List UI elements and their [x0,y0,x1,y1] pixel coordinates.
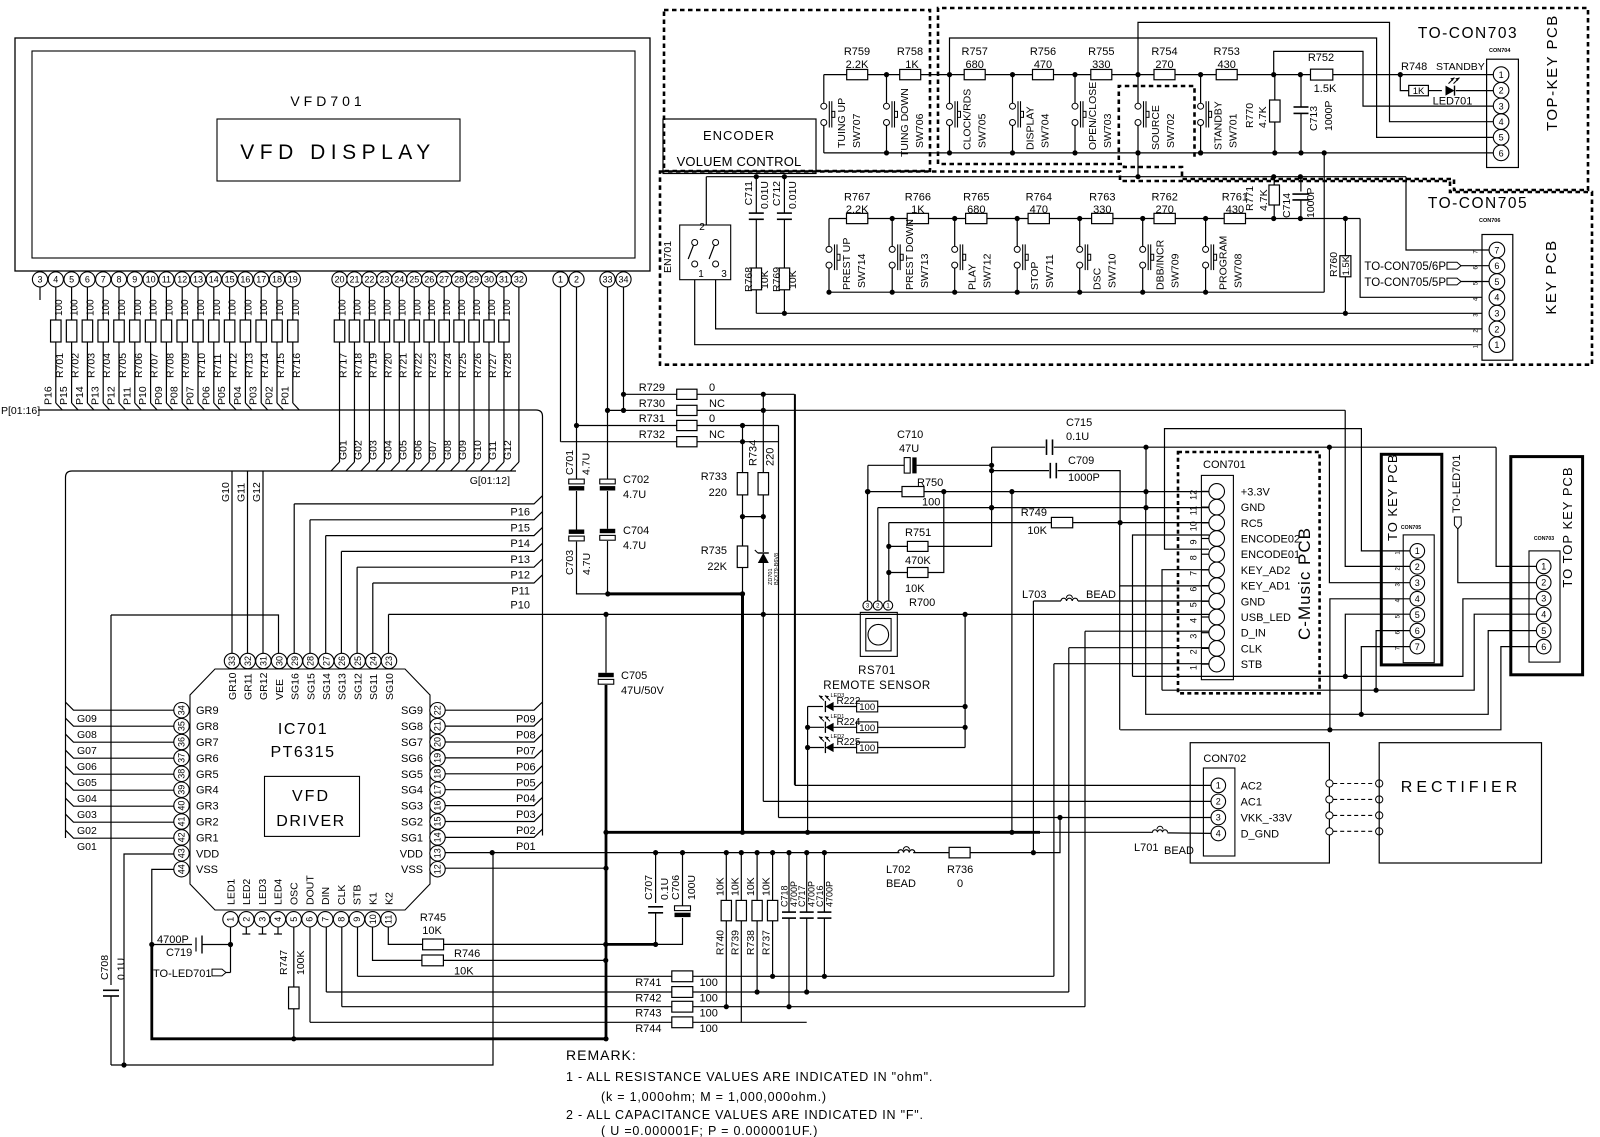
svg-text:4: 4 [53,275,58,285]
svg-text:12: 12 [1189,490,1199,500]
svg-text:CON703: CON703 [1534,536,1554,542]
svg-text:R715: R715 [275,353,287,378]
wire C702-C704 [607,491,609,529]
IC pin 1 LED1 [223,912,238,927]
svg-text:R738: R738 [745,930,757,955]
svg-text:SW712: SW712 [982,253,994,288]
svg-text:34: 34 [177,705,187,715]
wire P08 [445,718,542,726]
IC pin 8 CLK [333,912,348,927]
svg-text:24: 24 [369,656,379,666]
svg-text:11: 11 [162,275,171,285]
svg-text:1: 1 [558,275,563,285]
CON701 connector body [1201,475,1233,679]
CON701 pin 9 ENCODE02 [1209,531,1225,547]
svg-text:LED701: LED701 [1433,96,1473,108]
svg-text:KEY_AD1: KEY_AD1 [1241,581,1291,593]
svg-text:R758: R758 [897,46,923,58]
IC pin 13 VDD [430,846,445,861]
VFD pin 3 stub [39,287,41,300]
svg-text:GND: GND [1241,502,1266,514]
svg-text:4: 4 [273,917,283,922]
svg-text:4.7U: 4.7U [581,553,593,575]
CON706 pin 3 [1489,305,1505,321]
IC pin 2 LED2 [239,912,254,927]
LED LED3 [825,702,833,711]
svg-text:100: 100 [700,993,718,1005]
svg-text:5: 5 [69,275,74,285]
svg-text:29: 29 [469,275,479,285]
svg-text:R702: R702 [70,353,82,378]
IC pin 10 K1 [365,912,380,927]
svg-text:100: 100 [228,299,239,316]
CON704 pin 3 [1493,98,1509,114]
svg-text:100: 100 [859,723,875,734]
svg-text:1: 1 [698,269,704,280]
wire AC2 line [795,394,1211,785]
wire R746 right [443,959,605,961]
IC pin 43 VDD [174,846,189,861]
VFD pin 14 [213,271,215,272]
IC pin 40 GR3 [174,798,189,813]
svg-text:2: 2 [1216,797,1221,807]
svg-text:16: 16 [433,801,443,811]
wire G11 to IC [247,471,249,653]
IC pin 30 VEE [271,653,286,668]
svg-text:44: 44 [177,864,187,874]
svg-text:NC: NC [709,398,725,410]
IC pin 34 GR9 [174,703,189,718]
svg-text:ENCODE01: ENCODE01 [1241,549,1300,561]
svg-text:100: 100 [54,299,65,316]
CON702 to rectifier links [1326,780,1333,787]
svg-text:LED2: LED2 [241,879,253,905]
wire pin2 CLK corner [1069,647,1209,649]
svg-text:STANDBY: STANDBY [1436,61,1485,73]
svg-text:R710: R710 [196,353,208,378]
switch SW714 PREST UP [828,219,830,247]
svg-text:100: 100 [212,299,223,316]
svg-text:9: 9 [1189,539,1199,544]
VFD pin 16 [244,271,246,272]
switch SW701 STANDBY [1198,72,1203,77]
svg-text:GR12: GR12 [258,672,270,700]
svg-text:P14: P14 [74,386,86,405]
wire pin8 ENCODE01 [1165,429,1410,551]
svg-text:17: 17 [256,275,266,285]
svg-text:C711: C711 [743,181,755,205]
svg-text:24: 24 [394,275,404,285]
resistor R742 100 [325,927,327,992]
svg-text:P11: P11 [511,586,530,598]
resistor R737 10K [770,850,775,855]
svg-text:10K: 10K [761,877,773,896]
svg-text:4: 4 [1494,293,1499,303]
wire EN701 pin1 to con706 pin1 [695,280,1482,345]
IC pin 39 GR4 [174,782,189,797]
IC pin 16 SG3 [430,798,445,813]
svg-text:P10: P10 [510,600,530,612]
CON701 pin 6 KEY_AD1 [1209,578,1225,594]
svg-text:100: 100 [367,299,378,316]
svg-text:P16: P16 [42,386,54,405]
svg-text:R747: R747 [278,950,290,975]
IC pin 21 SG8 [430,718,445,733]
svg-text:C714: C714 [1281,193,1293,218]
VFD pin 19 [292,271,294,272]
capacitor C709 1000P [992,470,1049,472]
svg-text:C708: C708 [99,955,111,980]
svg-text:TO KEY PCB: TO KEY PCB [1385,453,1400,541]
VFD pin 29 [473,271,475,272]
svg-text:3: 3 [1494,309,1499,319]
svg-text:LED1: LED1 [225,879,237,905]
svg-text:22K: 22K [707,561,727,573]
CON703 pin 1 [1536,559,1551,574]
svg-text:C715: C715 [1066,417,1092,429]
svg-text:TO TOP KEY PCB: TO TOP KEY PCB [1560,466,1575,587]
wire R733 vertical [742,426,744,473]
svg-text:R726: R726 [472,353,484,378]
svg-text:R723: R723 [427,353,439,378]
svg-text:VFD DISPLAY: VFD DISPLAY [240,141,435,164]
svg-text:SW709: SW709 [1170,253,1182,288]
VFD pin 15 [229,271,231,272]
svg-text:0.1U: 0.1U [116,958,128,980]
capacitor C707 0.1U [655,853,657,903]
svg-text:R733: R733 [701,471,727,483]
wire CON705 pin7 [1361,647,1409,715]
svg-text:3: 3 [1499,101,1504,111]
svg-text:R706: R706 [133,353,145,378]
svg-text:GND: GND [1241,596,1266,608]
svg-text:+3.3V: +3.3V [1241,486,1271,498]
svg-text:R704: R704 [101,353,113,378]
svg-text:R743: R743 [635,1007,661,1019]
CON704 pin 6 [1493,145,1509,161]
svg-text:R746: R746 [454,948,480,960]
svg-text:STANDBY: STANDBY [1213,101,1225,150]
wire pin1 to R732 [560,287,562,442]
svg-text:DBB/INCR: DBB/INCR [1155,239,1167,290]
svg-text:100: 100 [133,299,144,316]
svg-text:SG16: SG16 [290,673,302,700]
svg-text:BZX79-B6V8: BZX79-B6V8 [774,553,780,585]
svg-text:100: 100 [164,299,175,316]
IC pin 7 DIN [318,912,333,927]
svg-text:10K: 10K [714,877,726,896]
svg-text:P09: P09 [153,386,165,405]
svg-text:R730: R730 [639,398,665,410]
bold VSS net down [152,945,606,1039]
svg-text:1.5K: 1.5K [1341,255,1352,275]
svg-text:10K: 10K [422,925,442,937]
svg-text:100: 100 [180,299,191,316]
svg-text:10K: 10K [787,270,799,289]
svg-text:P06: P06 [200,386,212,405]
svg-text:470: 470 [1030,204,1048,216]
resistor R717 100 [339,287,341,320]
svg-text:1: 1 [226,917,236,922]
svg-text:R732: R732 [639,429,665,441]
LED LED1 [825,723,833,732]
svg-text:1: 1 [1541,562,1546,572]
wire G12 to IC [262,471,264,653]
switch SW707 TUING UP [823,75,825,103]
svg-text:RC5: RC5 [1241,518,1263,530]
svg-text:6: 6 [85,275,90,285]
svg-text:K2: K2 [383,892,395,905]
svg-text:R740: R740 [714,930,726,955]
svg-text:100: 100 [700,1023,718,1035]
CON701 pin 11 GND [1209,499,1225,515]
svg-text:17: 17 [433,785,443,795]
svg-text:1000P: 1000P [1323,101,1335,131]
capacitor C702 4.7U [600,479,616,484]
svg-text:KEY PCB: KEY PCB [1543,239,1560,314]
CON703 pin 6 [1536,639,1551,654]
svg-text:SOURCE: SOURCE [1150,105,1162,150]
svg-text:GR8: GR8 [196,721,219,733]
wire C710 left down [867,465,869,491]
svg-text:31: 31 [499,275,509,285]
svg-text:SG5: SG5 [401,769,423,781]
VFD pin 34 [623,271,625,272]
wire G08 [66,718,174,726]
svg-text:1K: 1K [1413,86,1425,97]
svg-text:6: 6 [305,917,315,922]
resistor R700 10K [907,568,928,578]
resistor R718 100 [353,287,355,320]
CON702 pin 1 AC2 [1211,778,1226,793]
IC pin 28 SG15 [303,653,318,668]
svg-text:VKK_-33V: VKK_-33V [1241,812,1293,824]
svg-text:GR9: GR9 [196,705,219,717]
svg-text:23: 23 [384,656,394,666]
IC pin 4 LED4 [270,912,285,927]
wire K2 pin11 [388,927,422,944]
svg-text:VEE: VEE [274,679,286,700]
svg-text:100: 100 [427,299,438,316]
svg-text:0.01U: 0.01U [759,181,771,209]
VFD pin 12 [181,271,183,272]
svg-text:C703: C703 [564,550,576,575]
IC pin 26 SG13 [334,653,349,668]
svg-text:TO-CON705/5P: TO-CON705/5P [1364,277,1446,289]
resistor R715 100 [276,287,278,320]
CON704 pin 1 [1493,67,1509,83]
svg-text:100U: 100U [686,875,698,900]
svg-text:L703: L703 [1022,589,1046,601]
VFD pin 22 [368,271,370,272]
svg-text:10K: 10K [729,877,741,896]
svg-text:R752: R752 [1308,52,1334,64]
resistor R719 100 [368,287,370,320]
CON701 pin 10 RC5 [1209,515,1225,531]
svg-text:SG8: SG8 [401,721,423,733]
svg-text:5: 5 [1494,277,1499,287]
capacitor C705 47U/50V [598,673,614,677]
svg-text:CON704: CON704 [1489,48,1511,54]
svg-text:13: 13 [193,275,203,285]
svg-text:STB: STB [1241,659,1262,671]
wire pin7 drop [1406,177,1489,250]
svg-text:6: 6 [1499,148,1504,158]
svg-text:P04: P04 [516,793,536,805]
dashed notch around SW702 [1119,86,1195,160]
resistor R716 100 [292,287,294,320]
svg-text:SG12: SG12 [352,673,364,700]
resistor R744 100 [309,927,311,1022]
svg-text:40: 40 [177,801,187,811]
resistor R712 100 [229,287,231,320]
resistor R704 100 [102,287,104,320]
svg-text:P05: P05 [516,777,536,789]
svg-text:28: 28 [306,656,316,666]
VFD pin 32 wire [518,287,520,462]
svg-text:28: 28 [454,275,464,285]
svg-text:R770: R770 [1244,103,1256,128]
resistor R731 0 [577,425,677,427]
wire CON705 pin4 [1330,599,1410,730]
switch SW711 STOP [1015,216,1020,221]
svg-text:( U =0.000001F; P = 0.000001UF: ( U =0.000001F; P = 0.000001UF.) [601,1124,818,1137]
node R731/R733 [740,423,745,428]
wire pin7 line con706 [706,176,1406,178]
svg-text:100: 100 [243,299,254,316]
svg-text:VSS: VSS [401,864,423,876]
LED LED701 [1446,86,1455,96]
svg-text:P09: P09 [516,714,536,726]
svg-text:16: 16 [240,275,250,285]
svg-text:D_IN: D_IN [1241,628,1266,640]
svg-text:100: 100 [922,497,940,509]
svg-text:470K: 470K [905,555,931,567]
resistor R705 100 [118,287,120,320]
VFD pin 32 [518,271,520,272]
resistor R729 0 [624,393,677,395]
svg-text:C712: C712 [771,181,783,206]
svg-text:42: 42 [177,832,187,842]
svg-text:R745: R745 [420,912,446,924]
wire pin1 corner to R732 [560,441,563,443]
wire net R757 to CON704 pin5 [950,38,1494,137]
svg-text:P04: P04 [232,386,244,405]
svg-text:3: 3 [1541,594,1546,604]
CON701 pin 3 D_IN [1209,625,1225,641]
svg-text:TO-LED701: TO-LED701 [1451,455,1463,514]
RECTIFIER box [1379,743,1541,863]
svg-text:3: 3 [37,275,42,285]
svg-text:C717: C717 [797,885,807,907]
svg-text:SG13: SG13 [337,673,349,700]
VFD pin 4 [55,271,57,272]
svg-text:23: 23 [379,275,389,285]
wire pin34 to R729 [623,287,625,410]
VFD pin 17 [260,271,262,272]
svg-text:GR2: GR2 [196,817,219,829]
svg-text:47U: 47U [899,443,919,455]
dashed box top-key section [938,8,1588,190]
VFD pin 27 [443,271,445,272]
svg-text:22: 22 [433,705,443,715]
svg-text:SW702: SW702 [1165,113,1177,148]
CON706 pin 4 [1489,290,1505,306]
svg-text:VOLUEM CONTROL: VOLUEM CONTROL [677,154,802,169]
CON705 pin 2 [1410,560,1425,575]
resistor R721 100 [398,287,400,320]
svg-text:P01: P01 [279,386,291,405]
resistor R711 100 [213,287,215,320]
svg-text:5: 5 [1415,610,1420,620]
connector CON702 outer box [1190,743,1329,863]
svg-text:4: 4 [1189,618,1199,623]
svg-text:R718: R718 [352,353,364,378]
wire P06 [445,750,542,758]
svg-text:2: 2 [1499,86,1504,96]
wire G03 [66,798,174,806]
CON701 pin 1 STB [1209,656,1225,672]
svg-text:100: 100 [275,299,286,316]
svg-text:REMARK:: REMARK: [566,1047,637,1063]
svg-text:C713: C713 [1308,106,1320,131]
capacitor C718 4700P [786,850,791,855]
wire C701-C703 [576,491,578,530]
svg-text:REMOTE SENSOR: REMOTE SENSOR [823,680,930,692]
VFD pin 23 [383,271,385,272]
resistor R734 220 [758,473,769,495]
svg-text:ENCODER: ENCODER [703,128,775,143]
C-Music PCB dashed box [1178,452,1320,693]
svg-text:43: 43 [177,848,187,858]
svg-text:1K: 1K [911,204,925,216]
svg-text:P10: P10 [137,386,149,405]
svg-text:RECTIFIER: RECTIFIER [1401,779,1521,796]
svg-text:SG6: SG6 [401,753,423,765]
wire pin7 KEY_AD2 [1162,570,1209,691]
ENCODER VOLUEM CONTROL box [663,119,816,174]
svg-text:P14: P14 [510,538,530,550]
VFD pin 13 [197,271,199,272]
svg-text:R719: R719 [367,353,379,378]
svg-text:8: 8 [1189,555,1199,560]
svg-text:100: 100 [149,299,160,316]
svg-text:C701: C701 [564,450,576,475]
svg-text:3: 3 [257,917,267,922]
svg-text:1: 1 [1189,665,1199,670]
switch SW702 SOURCE [1135,72,1140,77]
CON702 pin 3 VKK_-33V [1211,810,1226,825]
svg-text:CON706: CON706 [1479,218,1500,224]
CON706 pin 2 [1489,321,1505,337]
resistor R706 100 [134,287,136,320]
wire VKK line [779,817,1212,819]
svg-text:R722: R722 [412,353,424,378]
svg-text:P13: P13 [90,386,102,405]
wire C715 vertical [991,447,993,507]
svg-text:100: 100 [382,299,393,316]
svg-text:G07: G07 [77,745,97,757]
wire GND to RS701 pin2 [877,508,879,601]
resistor R727 100 [488,287,490,320]
svg-text:19: 19 [288,275,298,285]
resistor R720 100 [383,287,385,320]
svg-text:SG3: SG3 [401,801,423,813]
node R731 tap [574,423,579,428]
wire STB riser [1053,664,1055,977]
svg-text:3: 3 [721,269,727,280]
svg-text:GR3: GR3 [196,801,219,813]
